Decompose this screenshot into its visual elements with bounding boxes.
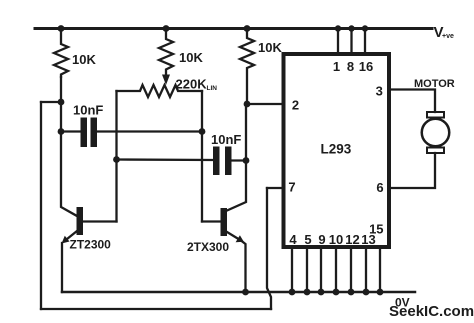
wire: bottom pin 5 to 0V bbox=[306, 247, 308, 292]
svg-text:L293: L293 bbox=[321, 142, 352, 157]
svg-text:LIN: LIN bbox=[207, 85, 218, 92]
svg-text:1: 1 bbox=[333, 59, 340, 74]
capacitor C2 10nF plates bbox=[213, 147, 220, 176]
node: C2 left junction bbox=[113, 156, 120, 163]
wire: bottom pin 9 to 0V bbox=[320, 247, 322, 292]
node: C2 right junction bbox=[243, 157, 250, 164]
svg-text:6: 6 bbox=[376, 180, 383, 195]
wire: C1 right lead to Q2 base line bbox=[97, 130, 202, 132]
wire: feedback to Q1 collector node bbox=[41, 101, 61, 103]
wire: Q2 emitter down to 0V bbox=[241, 241, 246, 293]
wire: pin 1 to rail bbox=[337, 29, 339, 55]
node: R1 / feedback wire junction bbox=[58, 99, 65, 106]
svg-text:12: 12 bbox=[345, 232, 359, 247]
wire: bottom pin 4 to 0V bbox=[291, 247, 293, 292]
transistor Q2 2TX300 base bar bbox=[221, 208, 228, 236]
svg-text:10K: 10K bbox=[72, 52, 96, 67]
svg-text:2: 2 bbox=[292, 98, 299, 113]
wire: pot left end down to Q1 base bbox=[115, 91, 117, 222]
node: 0V junction pin10 bbox=[333, 289, 340, 296]
wire: 0V ground rail bbox=[62, 291, 415, 294]
svg-text:SeekIC.com: SeekIC.com bbox=[389, 303, 474, 320]
node: 0V junction pin15 bbox=[377, 289, 384, 296]
svg-text:MOTOR: MOTOR bbox=[414, 78, 455, 90]
wire: pin 7 feedback vertical with jog over 0V rail bbox=[267, 188, 271, 309]
wire: Q2 collector lead bbox=[227, 105, 246, 211]
svg-text:5: 5 bbox=[304, 232, 311, 247]
wire: C2 left lead bbox=[117, 158, 214, 161]
wire: bottom feedback run bbox=[41, 308, 271, 310]
svg-text:7: 7 bbox=[288, 180, 295, 195]
wire: bottom pin 12 to 0V bbox=[350, 247, 352, 292]
wire: Q1 base lead bbox=[83, 220, 117, 222]
node: rail junction pin16 wire bbox=[362, 25, 368, 31]
node: 0V junction pin5 bbox=[304, 289, 311, 296]
motor M1 top brush bbox=[427, 112, 444, 118]
wire: left feedback vertical bbox=[40, 102, 42, 309]
node: 0V junction pin9 bbox=[318, 289, 325, 296]
node: rail junction R1 bbox=[58, 25, 65, 32]
motor M1 body bbox=[422, 119, 450, 147]
svg-text:10K: 10K bbox=[179, 50, 203, 65]
wire: pin 7 stub bbox=[267, 187, 284, 189]
wire: bottom pin 15 to 0V bbox=[379, 247, 381, 292]
IC U1 L293 body bbox=[284, 54, 390, 247]
node: 0V junction pin13 bbox=[363, 289, 370, 296]
transistor Q1 ZT2300 base bar bbox=[77, 207, 84, 235]
wire: V+ supply rail bbox=[35, 27, 432, 30]
wire: bottom pin 10 to 0V bbox=[335, 247, 337, 292]
svg-text:10: 10 bbox=[329, 232, 343, 247]
node: rail junction pin8 wire bbox=[348, 25, 354, 31]
svg-text:16: 16 bbox=[359, 59, 373, 74]
wire: Q1 emitter lead with arrow bbox=[65, 231, 78, 241]
node: rail junction R2 bbox=[163, 25, 170, 32]
svg-text:10K: 10K bbox=[258, 40, 282, 55]
svg-text:3: 3 bbox=[376, 84, 383, 99]
svg-text:2TX300: 2TX300 bbox=[187, 240, 229, 254]
wire: R1 bottom to Q1 collector node bbox=[60, 77, 62, 132]
resistor R1 10K bbox=[54, 29, 68, 78]
node: R3 bottom / pin2 wire junction bbox=[244, 101, 251, 108]
node: 0V junction pin4 bbox=[289, 289, 296, 296]
svg-text:ZT2300: ZT2300 bbox=[70, 238, 112, 252]
svg-text:220K: 220K bbox=[176, 77, 208, 92]
wire: C2 right lead to Q2 collector line bbox=[232, 159, 247, 161]
svg-text:10nF: 10nF bbox=[211, 132, 241, 147]
node: C1 right junction bbox=[199, 128, 206, 135]
wire: motor bottom to pin 6 bbox=[389, 153, 435, 188]
svg-text:4: 4 bbox=[289, 232, 297, 247]
wire: Q1 collector lead bbox=[61, 132, 77, 217]
wiper arrow of potentiometer bbox=[162, 75, 170, 86]
wire: pin 8 to rail bbox=[350, 29, 352, 55]
resistor R3 10K bbox=[240, 29, 254, 105]
svg-text:13: 13 bbox=[361, 232, 375, 247]
svg-text:10nF: 10nF bbox=[73, 103, 103, 118]
node: 0V junction Q2 emitter bbox=[242, 289, 249, 296]
svg-text:+ve: +ve bbox=[442, 33, 454, 40]
wire: pot right end down to Q2 base bbox=[201, 91, 203, 222]
resistor R2 10K bbox=[159, 29, 173, 77]
potentiometer VR1 220K LIN body bbox=[117, 85, 203, 97]
wire: pin 3 to motor bbox=[389, 90, 435, 113]
wire: bottom pin 13 to 0V bbox=[365, 247, 367, 292]
svg-text:8: 8 bbox=[347, 59, 354, 74]
wire: Q2 base lead bbox=[202, 220, 221, 222]
wire: pin 2 input from Q2 collector bbox=[247, 103, 284, 105]
node: rail junction R3 bbox=[244, 25, 251, 32]
wire: pin 16 to rail bbox=[364, 29, 366, 55]
svg-text:9: 9 bbox=[318, 232, 325, 247]
node: C1 left junction bbox=[58, 128, 65, 135]
motor M1 bottom brush bbox=[427, 148, 444, 154]
node: 0V junction pin12 bbox=[348, 289, 355, 296]
node: rail junction pin1 wire bbox=[335, 25, 341, 31]
wire: C1 left lead bbox=[61, 130, 81, 132]
capacitor C1 10nF plates bbox=[81, 118, 88, 148]
wire: Q1 emitter down to 0V bbox=[61, 243, 63, 292]
wire: Q2 emitter lead with arrow bbox=[227, 232, 241, 241]
